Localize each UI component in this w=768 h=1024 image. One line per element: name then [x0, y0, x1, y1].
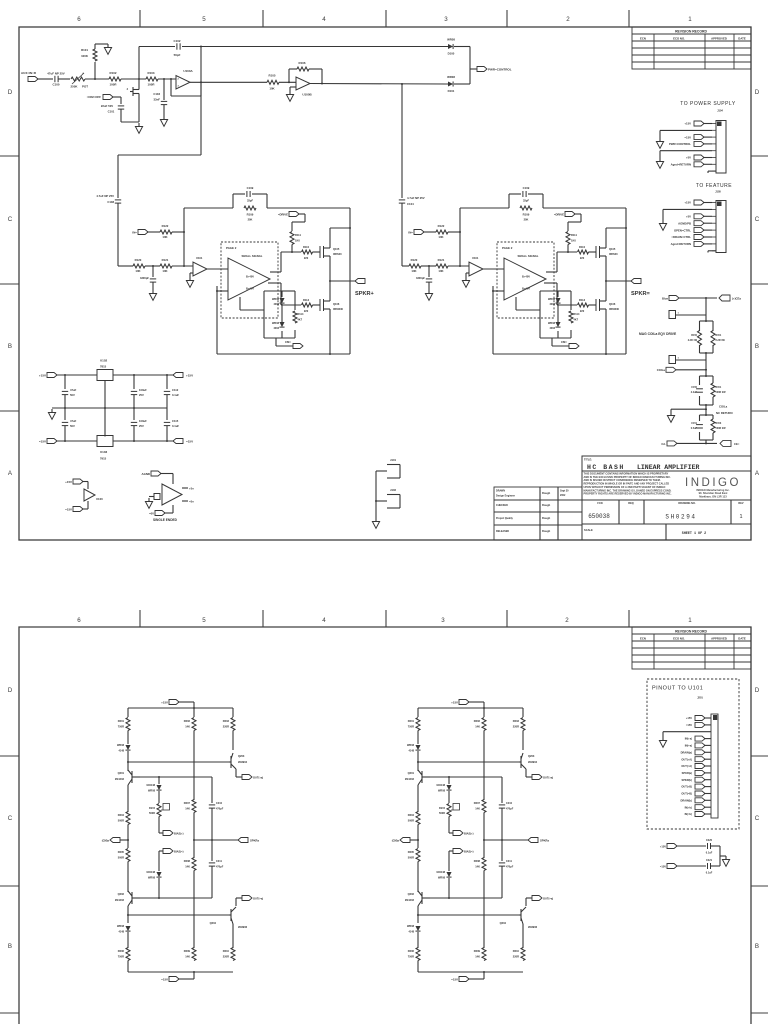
- svg-text:4K7: 4K7: [298, 319, 303, 322]
- svg-text:C100: C100: [53, 83, 60, 87]
- wire upper gate b: [557, 251, 577, 253]
- wire lower gate b: [557, 304, 577, 306]
- diode D201 blkB: [415, 745, 420, 750]
- svg-text:C101: C101: [108, 110, 115, 114]
- tag SPKR b: [631, 279, 641, 284]
- J201 pin 13 DRAIN(b): [704, 799, 711, 801]
- sense loop 2 frame: [700, 375, 714, 377]
- svg-text:SHEET 1 OF 2: SHEET 1 OF 2: [682, 532, 706, 536]
- wire R100 to junction: [85, 78, 109, 80]
- wire L col d blkB: [417, 825, 419, 849]
- op-amp U100D: [162, 484, 182, 505]
- svg-text:Agnd=RETURN: Agnd=RETURN: [671, 242, 691, 246]
- svg-text:10K: 10K: [438, 269, 443, 273]
- capacitor C100: [54, 76, 56, 82]
- svg-text:U103: U103: [100, 450, 108, 454]
- resistor R201 blkA: [127, 708, 129, 717]
- svg-text:220: 220: [580, 309, 585, 313]
- J104 pin 2 =15V: [703, 136, 712, 138]
- wire -15V rail right: [113, 440, 174, 442]
- svg-text:WR08: WR08: [272, 322, 280, 325]
- svg-text:AGND: AGND: [141, 472, 150, 476]
- svg-text:2: 2: [565, 617, 569, 624]
- wire R col a blkA: [232, 731, 234, 751]
- svg-text:R101: R101: [81, 48, 88, 52]
- svg-text:Q202: Q202: [118, 892, 125, 896]
- svg-text:=15V: =15V: [161, 978, 168, 982]
- svg-text:R120: R120: [135, 258, 142, 262]
- wire gate M1 b: [589, 251, 597, 253]
- tag +15VA: [173, 373, 183, 378]
- svg-text:B=40V: B=40V: [522, 287, 530, 291]
- J105 pin 5 =DRAIN=CTRL: [703, 236, 712, 238]
- svg-text:750R: 750R: [118, 725, 124, 729]
- ground mid rail: [51, 409, 53, 413]
- J105 pin 4 OPEN=CTRL: [703, 229, 712, 231]
- svg-text:=DRAIN=CTRL: =DRAIN=CTRL: [671, 235, 691, 239]
- svg-text:14K: 14K: [475, 955, 480, 959]
- wire L col h blkA: [127, 961, 129, 973]
- wire R121 to opamp b: [448, 265, 469, 267]
- wire top right a: [267, 207, 350, 209]
- ground J201: [662, 737, 664, 741]
- dashed module box b: [497, 242, 554, 318]
- wire L col b blkA: [127, 751, 129, 771]
- wire top feedback right: [182, 46, 448, 48]
- wire input drop b: [401, 84, 403, 198]
- wire inner e blkA: [158, 878, 160, 898]
- svg-text:BIAS(+): BIAS(+): [174, 832, 184, 836]
- diode D110 b: [555, 298, 560, 303]
- svg-text:10K: 10K: [411, 269, 416, 273]
- title block outline: [582, 456, 751, 540]
- svg-text:47uF NP 25V: 47uF NP 25V: [47, 72, 65, 76]
- svg-text:5: 5: [202, 617, 206, 624]
- wire R121 to opamp a: [172, 265, 193, 267]
- jumper spine wire: [375, 471, 377, 518]
- mosfet Q105 a: [319, 246, 321, 258]
- wire cap col b blkA: [211, 808, 213, 861]
- wire L col c blkA: [127, 785, 129, 812]
- wire loop3 bottom: [705, 440, 707, 443]
- U100B plus gnd: [290, 86, 296, 88]
- svg-text:4148: 4148: [408, 750, 414, 753]
- power module triangle a: [228, 258, 270, 300]
- svg-text:4: 4: [322, 16, 326, 23]
- svg-text:100R: 100R: [148, 83, 156, 87]
- svg-text:4003: 4003: [273, 327, 279, 330]
- J105 pin 6 Agnd=RETURN: [703, 243, 712, 245]
- revision record table sheet2: [632, 627, 751, 669]
- wire decoupling top: [676, 845, 706, 847]
- svg-text:=DRIVE: =DRIVE: [278, 213, 288, 217]
- inner base wire blkA: [140, 776, 212, 778]
- svg-text:220R: 220R: [223, 955, 229, 959]
- resistor R12b input: [409, 264, 421, 268]
- sheet2 left zone tick 1: [0, 755, 19, 757]
- svg-text:CE=: CE=: [734, 442, 740, 446]
- J104 pin 4 +5V: [703, 157, 712, 159]
- sheet2 left zone tick 2: [0, 885, 19, 887]
- svg-text:WR08: WR08: [447, 75, 455, 79]
- resistor R210 blkA: [231, 948, 235, 961]
- svg-text:R208: R208: [184, 859, 191, 863]
- resistor R122 a: [160, 230, 172, 234]
- resistor R151: [711, 331, 715, 346]
- right rail b: [625, 208, 627, 354]
- sheet2 top zone tick 3: [385, 610, 387, 627]
- wire R106 to out: [309, 68, 322, 70]
- wire J106 to spine: [676, 314, 707, 316]
- svg-text:Rough: Rough: [542, 491, 551, 495]
- J105 pin 3 AGND/PB: [703, 222, 712, 224]
- svg-text:=ON/=OFF: =ON/=OFF: [87, 95, 102, 99]
- svg-text:(+)CEa: (+)CEa: [732, 297, 741, 301]
- svg-text:R205: R205: [408, 850, 415, 854]
- left rail b: [492, 286, 494, 354]
- buffer -5 pin: [182, 500, 188, 502]
- svg-text:TO FEATURE: TO FEATURE: [696, 183, 732, 189]
- svg-text:R111: R111: [295, 233, 301, 237]
- svg-text:TO POWER SUPPLY: TO POWER SUPPLY: [680, 101, 736, 107]
- svg-text:Q106: Q106: [333, 302, 340, 306]
- capacitor C211 blkA: [209, 862, 215, 864]
- svg-text:50V: 50V: [70, 393, 75, 397]
- wire M1 drain b: [605, 228, 607, 241]
- svg-text:2.2R 1W: 2.2R 1W: [716, 339, 726, 342]
- svg-text:Blue: Blue: [662, 297, 669, 301]
- base wire lower blkB: [418, 914, 519, 916]
- svg-text:Design Engineer: Design Engineer: [496, 495, 515, 498]
- svg-text:220: 220: [304, 256, 309, 260]
- wire top left b: [460, 207, 509, 209]
- mosfet Q106 a: [319, 299, 321, 311]
- ground J105: [663, 208, 712, 210]
- svg-text:NC RETURN: NC RETURN: [716, 411, 732, 415]
- resistor R113 b: [578, 303, 589, 307]
- svg-text:R201: R201: [118, 719, 125, 723]
- wire J107 to spine: [676, 359, 707, 361]
- ground J104 a: [660, 129, 712, 131]
- svg-text:20K: 20K: [248, 218, 253, 222]
- J201 pin 2 =15V: [704, 724, 711, 726]
- svg-text:J105: J105: [715, 190, 721, 194]
- svg-text:R121: R121: [438, 258, 445, 262]
- svg-text:REQ: REQ: [628, 502, 633, 505]
- svg-text:ECN: ECN: [640, 636, 646, 640]
- svg-text:R110: R110: [303, 245, 310, 249]
- svg-text:OUT(+a): OUT(+a): [543, 776, 553, 780]
- svg-text:+5V: +5V: [686, 156, 691, 160]
- svg-text:(CM)a: (CM)a: [102, 839, 110, 843]
- svg-text:WR08: WR08: [148, 877, 156, 880]
- svg-text:1: 1: [739, 514, 742, 520]
- transistor Q100 mute: [132, 87, 134, 96]
- svg-text:R102: R102: [110, 71, 117, 75]
- svg-text:3: 3: [444, 16, 448, 23]
- capacitor C109 b: [522, 191, 524, 197]
- op-amp U100C: [84, 489, 95, 501]
- svg-text:3300pF: 3300pF: [416, 276, 425, 280]
- svg-text:D: D: [8, 89, 13, 96]
- svg-text:DRAIN(b): DRAIN(b): [680, 798, 692, 802]
- svg-text:WR08: WR08: [548, 322, 556, 325]
- svg-text:PROPERTY RIGHTS ARE RESERVED B: PROPERTY RIGHTS ARE RESERVED BY INDIGO M…: [584, 492, 672, 496]
- svg-text:R204: R204: [408, 813, 415, 817]
- svg-text:J104: J104: [717, 109, 723, 113]
- J105 bottom stub: [708, 250, 716, 252]
- capacitor C211 blkB: [499, 862, 505, 864]
- resistor R206 blkA: [126, 948, 130, 961]
- sheet1 top zone tick 1: [139, 10, 141, 27]
- svg-text:470pF: 470pF: [216, 866, 224, 869]
- svg-text:IN(+b): IN(+b): [685, 805, 693, 809]
- wire gate M2 a: [313, 304, 321, 306]
- svg-text:20K: 20K: [524, 218, 529, 222]
- svg-text:R120: R120: [411, 258, 418, 262]
- svg-text:10K: 10K: [269, 87, 275, 91]
- svg-text:PAGE 2: PAGE 2: [502, 246, 513, 250]
- wire blue to coil: [679, 297, 717, 299]
- svg-text:R215: R215: [439, 807, 446, 810]
- wire to output tag b: [606, 280, 632, 282]
- svg-text:OUT(=a): OUT(=a): [253, 897, 263, 901]
- diode network box b: [539, 291, 541, 338]
- resistor R110 a: [302, 250, 313, 254]
- wire to output tag a: [330, 280, 356, 282]
- svg-text:LINEAR AMPLIFIER: LINEAR AMPLIFIER: [637, 464, 700, 471]
- wire small left bottom: [87, 501, 89, 509]
- wire M col b blkA: [193, 813, 195, 859]
- svg-text:SPKR+: SPKR+: [355, 291, 375, 297]
- svg-text:IN=: IN=: [408, 231, 413, 235]
- mosfet Q105 b: [595, 246, 597, 258]
- J105 pin 1 +15V: [703, 202, 712, 204]
- svg-text:C211: C211: [506, 860, 512, 863]
- wire inner a blkB: [448, 777, 450, 784]
- wire Q204 collector blkB: [526, 897, 532, 899]
- svg-text:1N4148: 1N4148: [146, 871, 155, 874]
- svg-text:2N4403: 2N4403: [115, 777, 125, 781]
- svg-text:2N3904: 2N3904: [528, 760, 538, 764]
- resistor R110 b: [578, 250, 589, 254]
- svg-text:C: C: [8, 216, 13, 223]
- ground U100B: [289, 91, 291, 95]
- svg-text:1N4148: 1N4148: [436, 871, 445, 874]
- wire input vertical b: [401, 203, 403, 266]
- capacitor C221: [707, 863, 709, 869]
- svg-text:+15V: +15V: [39, 374, 46, 378]
- wire to ground coil: [671, 408, 706, 410]
- regulator U103: [97, 436, 113, 447]
- svg-text:+15V: +15V: [186, 374, 193, 378]
- sheet1 top zone tick 5: [628, 10, 630, 27]
- svg-text:U101: U101: [472, 256, 479, 260]
- sheet2 top zone tick 4: [506, 610, 508, 627]
- svg-text:R110: R110: [579, 245, 586, 249]
- svg-text:R114: R114: [574, 313, 580, 316]
- resistor R207 blkA: [192, 800, 196, 813]
- wire to PWR tag: [470, 68, 477, 70]
- svg-text:R209: R209: [474, 949, 481, 953]
- wire M col c blkB: [483, 871, 485, 949]
- svg-text:500R 2W: 500R 2W: [716, 427, 727, 430]
- inner base wire low blkA: [140, 897, 212, 899]
- ground J104 b: [660, 150, 712, 152]
- svg-text:D101: D101: [448, 89, 455, 93]
- J201 pin 10 SPKR(b): [704, 779, 711, 781]
- resistor R204 blkA: [126, 812, 130, 825]
- svg-text:220: 220: [304, 309, 309, 313]
- mute branch vertical: [138, 79, 140, 88]
- svg-text:Q201: Q201: [118, 771, 125, 775]
- svg-text:1: 1: [688, 16, 692, 23]
- svg-text:C150: C150: [691, 386, 697, 389]
- svg-text:B: B: [755, 943, 759, 950]
- op-amp error amp a: [193, 262, 207, 276]
- svg-text:500R: 500R: [439, 812, 445, 815]
- svg-text:POT: POT: [82, 85, 88, 89]
- svg-text:750R: 750R: [408, 955, 414, 959]
- op-amp U100A: [176, 76, 190, 90]
- svg-text:Q201: Q201: [408, 771, 415, 775]
- svg-text:BIAS(=): BIAS(=): [464, 850, 474, 854]
- J201 pin 8 OUT(=A): [704, 765, 711, 767]
- J201 pin 4 IN(+a): [704, 738, 711, 740]
- connector J104 body: [716, 121, 726, 174]
- sheet1 right zone tick 1: [751, 155, 768, 157]
- capacitor C150: [696, 388, 703, 390]
- svg-text:IRF9630: IRF9630: [333, 307, 344, 311]
- svg-text:250K: 250K: [71, 85, 79, 89]
- capacitor C115: [166, 408, 168, 420]
- svg-text:2: 2: [566, 16, 570, 23]
- transistor Q204 blkA: [230, 909, 232, 921]
- resistor R210 blkB: [521, 948, 525, 961]
- svg-text:R111: R111: [571, 233, 577, 237]
- wire L col b blkB: [417, 751, 419, 771]
- svg-text:R210: R210: [223, 949, 230, 953]
- wire M1 drain a: [329, 228, 331, 241]
- sheet2 top zone tick 2: [262, 610, 264, 627]
- svg-text:R203: R203: [223, 719, 230, 723]
- wire top feedback left: [139, 46, 175, 48]
- tag DRAIN blkA: [120, 839, 128, 841]
- resistor R102: [109, 77, 121, 81]
- svg-text:R209: R209: [184, 949, 191, 953]
- svg-text:=15V: =15V: [39, 440, 46, 444]
- svg-text:PWR=CONTROL: PWR=CONTROL: [669, 142, 691, 146]
- svg-text:100uF: 100uF: [139, 419, 147, 423]
- title block number dividers: [618, 500, 620, 524]
- svg-text:U101: U101: [196, 256, 203, 260]
- svg-text:4003: 4003: [549, 327, 555, 330]
- svg-text:Q202: Q202: [408, 892, 415, 896]
- sheet1 top zone tick 2: [262, 10, 264, 27]
- resistor R12a input: [133, 264, 145, 268]
- transistor Q203 blkA: [230, 756, 232, 768]
- J201 pin 9 SPKR(a): [704, 772, 711, 774]
- op-amp U100B: [296, 77, 310, 90]
- capacitor C113: [64, 408, 66, 420]
- wire L col e blkA: [127, 862, 129, 893]
- svg-text:1K0: 1K0: [571, 239, 576, 243]
- wire C101 bottom: [120, 109, 122, 122]
- svg-text:R205: R205: [118, 850, 125, 854]
- svg-text:Q105: Q105: [333, 247, 340, 251]
- U100B feedback: [288, 69, 290, 82]
- inner base wire low blkB: [430, 897, 502, 899]
- svg-text:500R: 500R: [118, 819, 124, 823]
- svg-text:4K7: 4K7: [574, 319, 579, 322]
- wire Q204 collector blkA: [236, 897, 242, 899]
- svg-text:220R: 220R: [223, 725, 229, 729]
- svg-text:47uF: 47uF: [70, 419, 77, 423]
- wire opamp to module b: [483, 268, 504, 270]
- svg-text:14K: 14K: [475, 865, 480, 869]
- capacitor C112: [166, 375, 168, 389]
- wire R105 to U100B: [279, 81, 296, 83]
- svg-text:500R: 500R: [408, 819, 414, 823]
- svg-text:C103: C103: [153, 92, 160, 96]
- tag OUT minus blkB: [532, 896, 542, 901]
- wire cap col a blkB: [501, 777, 503, 803]
- wire R122 to vert b: [448, 231, 460, 233]
- svg-text:B: B: [8, 943, 12, 950]
- J105 pin 2 +5V: [703, 215, 712, 217]
- svg-text:+15V: +15V: [65, 480, 72, 484]
- jumper J101: [387, 464, 400, 466]
- potentiometer R100: [71, 77, 85, 81]
- svg-text:=15V: =15V: [65, 508, 72, 512]
- connector J201 body: [711, 714, 718, 818]
- J201 pin 5 IN(=a): [704, 744, 711, 746]
- tag OUT minus blkA: [242, 896, 252, 901]
- svg-text:SCALE: SCALE: [584, 528, 593, 532]
- resistor R209 blkB: [482, 948, 486, 961]
- amp output lower b: [544, 282, 557, 284]
- svg-text:IRF630: IRF630: [609, 252, 618, 256]
- J104 pin 3 PWR=CONTROL: [703, 143, 712, 145]
- diode D204 blkA: [156, 872, 161, 877]
- J104 pin 1 +15V: [703, 123, 712, 125]
- svg-text:R207: R207: [474, 801, 481, 805]
- J201 pin 12 OUT(=B): [704, 793, 711, 795]
- ground jumpers: [375, 518, 377, 522]
- wire decoupling bottom: [676, 865, 706, 867]
- svg-text:MAG COILa EQV DRIVE: MAG COILa EQV DRIVE: [639, 332, 677, 336]
- capacitor C103: [163, 79, 165, 100]
- resistor R150: [698, 331, 702, 346]
- svg-text:OUT(+B): OUT(+B): [681, 785, 692, 789]
- wire between diodes b: [557, 304, 559, 322]
- wire inner d blkB: [449, 850, 453, 852]
- wire Q203 emitter blkA: [235, 769, 237, 777]
- ground decoupling: [720, 855, 726, 857]
- svg-text:14K: 14K: [185, 725, 190, 729]
- svg-text:0.1uF: 0.1uF: [172, 393, 179, 397]
- wire R111 bottom a: [291, 245, 293, 253]
- wire AGND to buffer: [160, 473, 173, 475]
- tag BIAS plus blkB: [453, 831, 463, 836]
- svg-text:WR08: WR08: [148, 790, 156, 793]
- ground error amp a: [190, 272, 193, 274]
- svg-text:Agnd=RETURN: Agnd=RETURN: [671, 163, 691, 167]
- svg-text:2.2uF: 2.2uF: [691, 391, 698, 394]
- svg-text:R150: R150: [691, 334, 697, 337]
- svg-text:470pF: 470pF: [506, 808, 514, 811]
- wire C103 gnd: [163, 105, 165, 117]
